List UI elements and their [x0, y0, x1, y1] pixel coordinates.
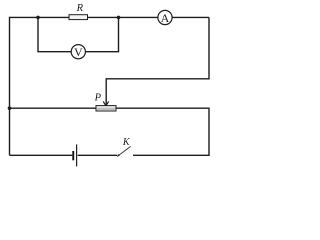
svg-text:A: A — [161, 11, 170, 25]
svg-text:K: K — [122, 137, 131, 148]
svg-text:R: R — [76, 3, 84, 14]
svg-text:P: P — [94, 93, 102, 104]
svg-text:V: V — [74, 45, 83, 59]
